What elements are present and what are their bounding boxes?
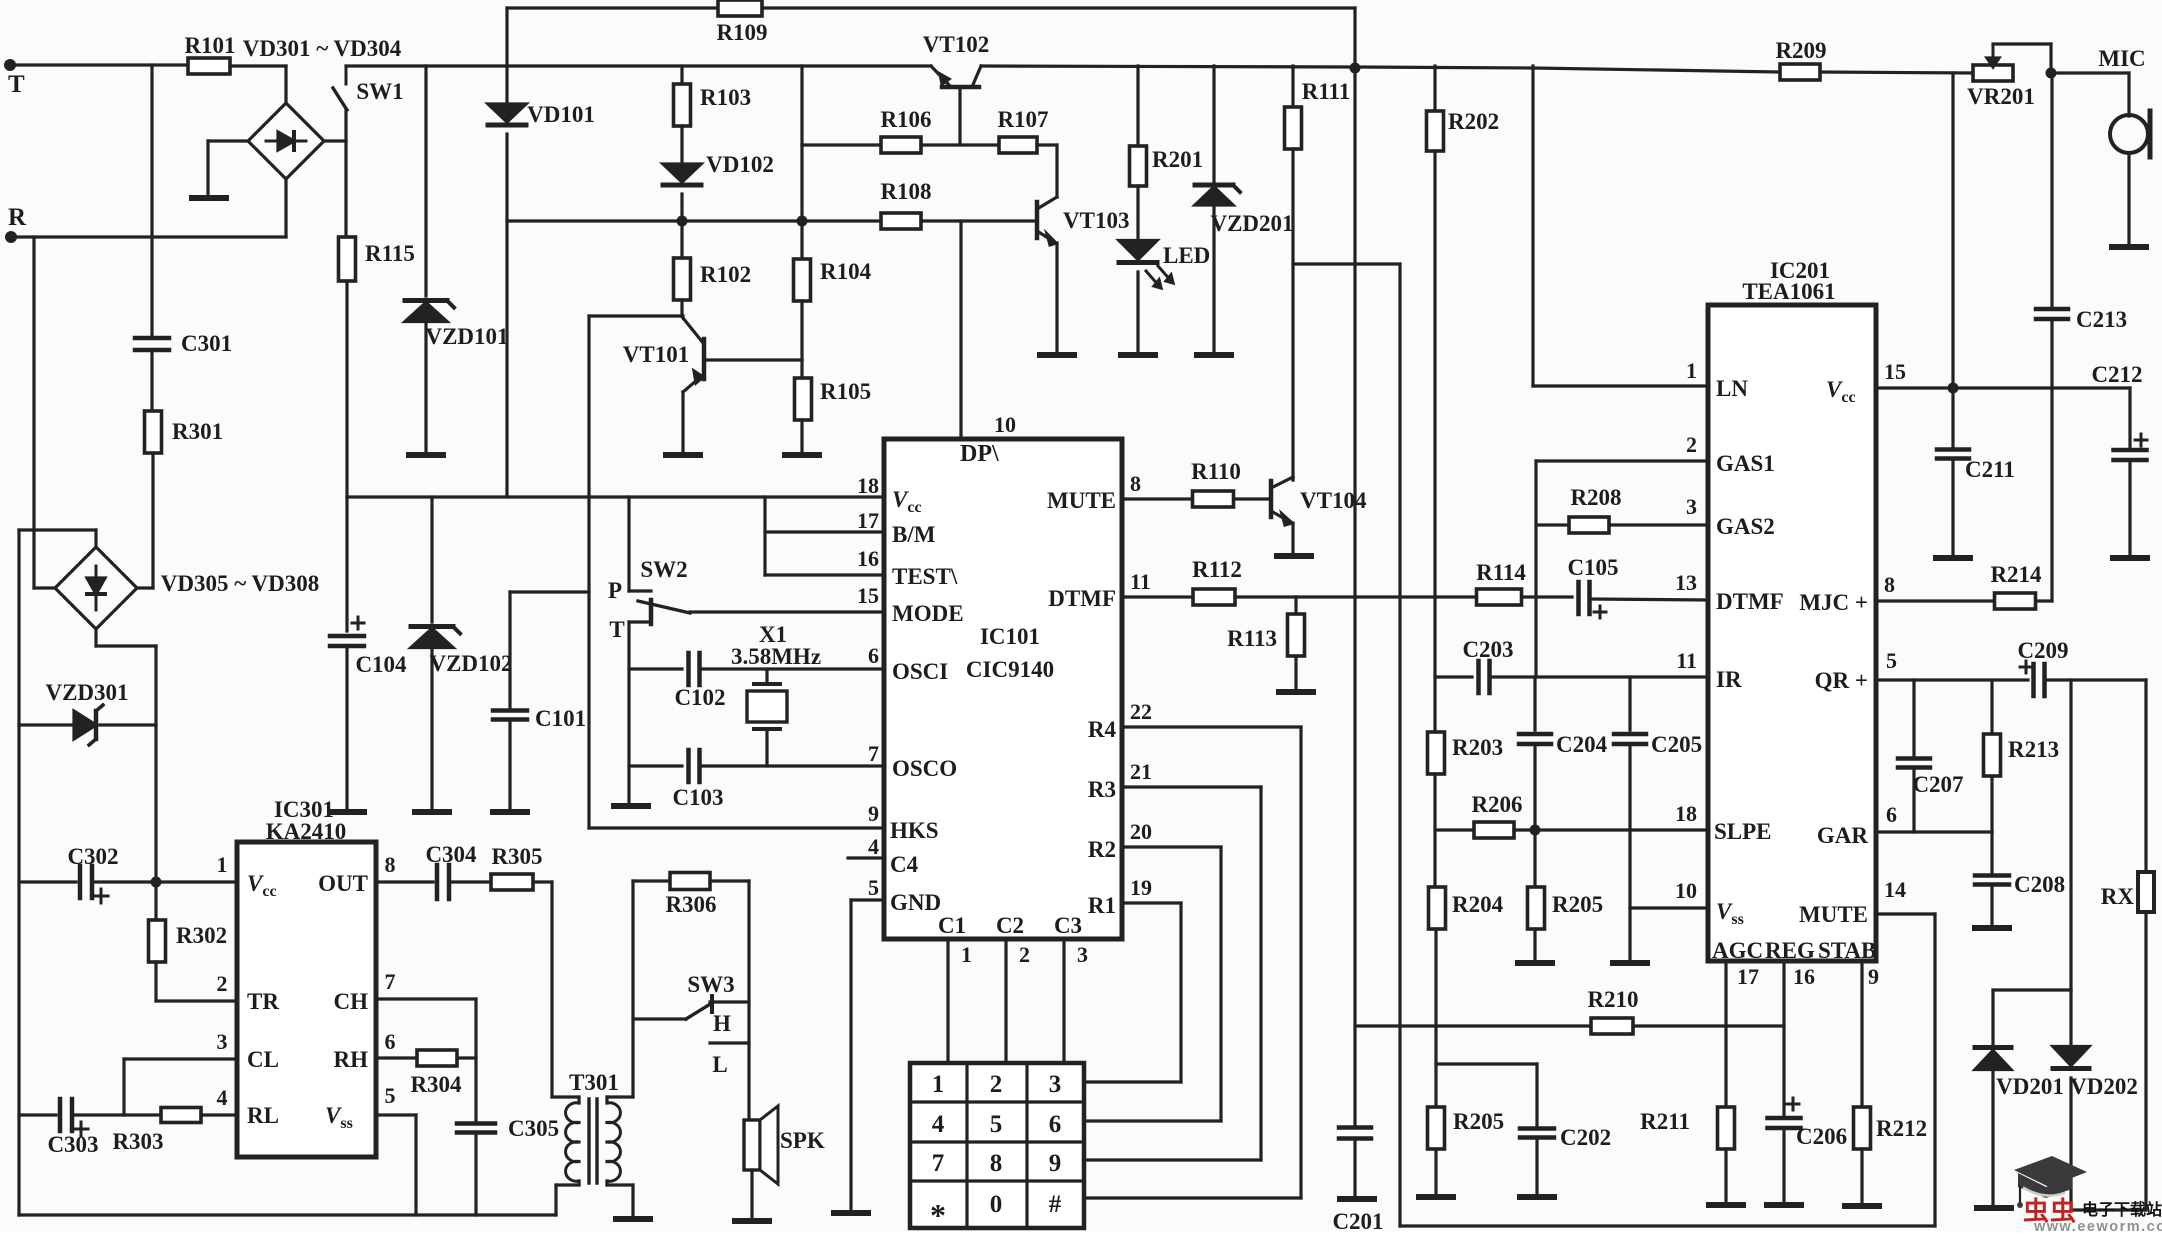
ground (R205 lower) — [1419, 1194, 1453, 1200]
svg-text:17: 17 — [1737, 964, 1759, 989]
capacitor C101 — [510, 590, 589, 593]
resistor R205 (lower) — [1434, 1064, 1437, 1107]
svg-text:MJC +: MJC + — [1799, 590, 1868, 615]
wire pin1 Vcc IC301 — [156, 880, 237, 883]
svg-text:R101: R101 — [184, 33, 235, 58]
svg-text:DTMF: DTMF — [1048, 586, 1116, 611]
resistor R108 — [881, 213, 921, 229]
svg-text:19: 19 — [1130, 875, 1152, 900]
svg-text:16: 16 — [857, 546, 879, 571]
svg-text:R302: R302 — [176, 923, 227, 948]
svg-text:6: 6 — [385, 1029, 396, 1054]
resistor R115 — [339, 237, 356, 281]
svg-text:C102: C102 — [674, 685, 725, 710]
capacitor C202 — [1436, 1062, 1537, 1065]
svg-text:R204: R204 — [1452, 892, 1504, 917]
wire C205 to ground — [1628, 908, 1631, 961]
ground (R212) — [1845, 1203, 1879, 1209]
watermark logo graduation cap — [2014, 1156, 2087, 1187]
svg-text:8: 8 — [385, 852, 396, 877]
node junction R102 — [677, 216, 688, 227]
svg-text:17: 17 — [857, 508, 879, 533]
wire B/M TEST tie to Vcc — [763, 497, 766, 575]
wire line sense vertical to C201 — [1353, 67, 1356, 1125]
wire x802 from rail — [800, 66, 803, 145]
svg-text:R111: R111 — [1302, 79, 1351, 104]
wire T to R101 — [10, 63, 189, 66]
svg-text:R214: R214 — [1990, 562, 2042, 587]
svg-text:C201: C201 — [1332, 1209, 1383, 1231]
svg-text:6: 6 — [868, 643, 879, 668]
svg-text:C213: C213 — [2076, 307, 2127, 332]
svg-text:TEST\: TEST\ — [892, 564, 958, 589]
svg-text:5: 5 — [990, 1111, 1003, 1138]
svg-text:C303: C303 — [47, 1132, 98, 1157]
svg-text:R102: R102 — [700, 262, 751, 287]
svg-text:R211: R211 — [1640, 1109, 1690, 1134]
ground (C212) — [2113, 555, 2147, 561]
wire GAS1 pin2 row — [1536, 459, 1708, 462]
node junction SLPE/C204 — [1530, 825, 1541, 836]
wire HKS sense line — [587, 316, 590, 828]
ground (C104) — [330, 809, 364, 815]
resistor R208 — [1536, 523, 1569, 526]
IC U301 KA2410 box — [237, 842, 376, 1157]
diode VD102 — [680, 126, 683, 163]
wire REG pin16 down — [1782, 961, 1785, 1115]
svg-text:DP\: DP\ — [960, 441, 999, 467]
svg-text:IR: IR — [1716, 667, 1742, 692]
svg-text:21: 21 — [1130, 759, 1152, 784]
wire bottom tie VD202-RX — [2071, 1208, 2146, 1211]
ground (VT101) — [666, 452, 700, 458]
resistor R210 — [1591, 1018, 1633, 1034]
svg-text:T: T — [8, 71, 25, 98]
svg-text:REG: REG — [1765, 938, 1815, 963]
capacitor C301 — [135, 336, 169, 341]
svg-text:R202: R202 — [1448, 109, 1499, 134]
svg-text:VD102: VD102 — [706, 152, 774, 177]
zener diode VZD301 — [74, 711, 96, 739]
wire Vcc pin15 row — [1876, 386, 2130, 389]
svg-text:VZD301: VZD301 — [45, 680, 128, 705]
svg-text:VD201: VD201 — [1996, 1074, 2064, 1099]
svg-text:VT103: VT103 — [1063, 208, 1129, 233]
resistor R109 — [507, 6, 718, 9]
svg-text:VT101: VT101 — [623, 342, 689, 367]
svg-text:5: 5 — [1886, 648, 1897, 673]
svg-text:R110: R110 — [1191, 459, 1241, 484]
svg-text:VD301 ~ VD304: VD301 ~ VD304 — [243, 36, 402, 61]
svg-text:C206: C206 — [1796, 1124, 1847, 1149]
wire R210 row — [1355, 1024, 1592, 1027]
capacitor C204 — [1533, 677, 1536, 730]
svg-text:TEA1061: TEA1061 — [1742, 279, 1835, 304]
svg-text:电子下载站: 电子下载站 — [2082, 1200, 2162, 1219]
capacitor C104 electrolytic — [345, 497, 348, 631]
svg-text:VD305 ~ VD308: VD305 ~ VD308 — [161, 571, 319, 596]
wire TR pin2 — [156, 999, 237, 1002]
svg-text:R104: R104 — [820, 259, 872, 284]
resistor R302 — [154, 882, 157, 920]
svg-text:C4: C4 — [890, 852, 919, 877]
wire column C1 — [946, 939, 949, 1063]
wire CL pin3 — [124, 1057, 237, 1060]
svg-text:C1: C1 — [938, 913, 966, 938]
svg-text:10: 10 — [994, 412, 1016, 437]
resistor R304 — [376, 1056, 417, 1059]
wire bottom rail (left) — [19, 1213, 556, 1216]
ground (VT104) — [1277, 553, 1311, 559]
wire row3 to pin21 R3 — [1122, 785, 1261, 788]
svg-text:1: 1 — [961, 942, 972, 967]
svg-text:2: 2 — [1019, 942, 1030, 967]
svg-text:C207: C207 — [1912, 772, 1963, 797]
wire Vcc net down — [1951, 73, 1954, 388]
svg-text:L: L — [712, 1052, 727, 1077]
svg-text:R3: R3 — [1088, 777, 1116, 802]
resistor R305 — [491, 874, 533, 890]
wire MJC pin8 row — [1876, 599, 1995, 602]
wire GND pin5 — [851, 898, 884, 901]
ground (SPK) — [735, 1218, 769, 1224]
svg-text:15: 15 — [857, 583, 879, 608]
svg-text:LN: LN — [1716, 376, 1748, 401]
svg-text:11: 11 — [1676, 648, 1697, 673]
resistor R204 — [1429, 887, 1446, 929]
ground (C205) — [1613, 960, 1647, 966]
svg-text:R213: R213 — [2008, 737, 2059, 762]
svg-text:8: 8 — [1884, 572, 1895, 597]
svg-text:3: 3 — [1049, 1071, 1062, 1098]
node junction top rail — [1350, 63, 1361, 74]
svg-text:VZD102: VZD102 — [429, 651, 512, 676]
LED arrows — [1146, 271, 1160, 287]
wire SW3 to R306 right / SPK — [747, 881, 750, 1120]
svg-text:11: 11 — [1130, 569, 1151, 594]
wire ring branch: bridge top jog to left rail — [94, 530, 97, 547]
wire diode clamp tie — [2069, 680, 2072, 990]
keypad matrix box — [910, 1063, 1084, 1228]
IC U201 TEA1061 box — [1708, 305, 1876, 961]
wire OUT pin8 to C304 — [376, 880, 433, 883]
wire QR pin5 row — [1876, 678, 2028, 681]
svg-text:T: T — [609, 617, 624, 642]
capacitor C305 — [474, 999, 477, 1120]
svg-text:VZD201: VZD201 — [1210, 211, 1293, 236]
ground (LED) — [1121, 352, 1155, 358]
capacitor C303 — [19, 1113, 56, 1116]
ground (C208) — [1975, 925, 2009, 931]
wire SW2 T leg down — [627, 622, 630, 804]
capacitor C102 — [629, 667, 682, 670]
svg-text:QR +: QR + — [1815, 668, 1868, 693]
svg-text:R209: R209 — [1775, 38, 1826, 63]
resistor R211 — [1718, 1107, 1735, 1149]
svg-text:R: R — [8, 204, 27, 231]
svg-text:1: 1 — [217, 852, 228, 877]
svg-text:4: 4 — [217, 1085, 228, 1110]
svg-text:C205: C205 — [1651, 732, 1702, 757]
svg-text:R103: R103 — [700, 85, 751, 110]
svg-text:IC101: IC101 — [980, 624, 1040, 649]
svg-text:R106: R106 — [880, 107, 931, 132]
svg-text:22: 22 — [1130, 699, 1152, 724]
wire GAR pin6 row — [1876, 830, 1992, 833]
svg-text:C103: C103 — [672, 785, 723, 810]
svg-text:CIC9140: CIC9140 — [966, 657, 1054, 682]
svg-text:0: 0 — [990, 1191, 1003, 1218]
wire SW1 to R115 — [344, 141, 347, 238]
svg-text:GAR: GAR — [1817, 823, 1869, 848]
capacitor C203 — [1476, 661, 1481, 693]
svg-text:R2: R2 — [1088, 837, 1116, 862]
svg-text:KA2410: KA2410 — [266, 819, 347, 844]
svg-text:R109: R109 — [716, 20, 767, 45]
wire bridge left to ground — [208, 139, 248, 142]
svg-text:C202: C202 — [1560, 1125, 1611, 1150]
svg-text:#: # — [1049, 1191, 1062, 1218]
svg-text:OSCO: OSCO — [892, 756, 957, 781]
svg-text:*: * — [930, 1197, 946, 1231]
ground (R205) — [1518, 960, 1552, 966]
ground (oscillator) — [614, 803, 648, 809]
wire VT101 collector node — [682, 316, 683, 318]
capacitor C205 — [1628, 677, 1631, 730]
wire R109 loop right — [762, 6, 1355, 9]
ground (R113) — [1279, 689, 1313, 695]
svg-text:R112: R112 — [1192, 557, 1242, 582]
ground (IC101 GND) — [834, 1210, 868, 1216]
svg-text:VD202: VD202 — [2070, 1074, 2138, 1099]
wire column C2 — [1004, 939, 1007, 1063]
svg-text:R212: R212 — [1876, 1116, 1927, 1141]
svg-text:C204: C204 — [1556, 732, 1608, 757]
svg-text:SPK: SPK — [780, 1128, 825, 1153]
wire MODE pin15 — [690, 610, 884, 613]
wire x802 bias chain — [800, 145, 803, 221]
svg-text:1: 1 — [932, 1071, 945, 1098]
svg-text:R205: R205 — [1453, 1109, 1504, 1134]
capacitor C201 — [1339, 1125, 1371, 1130]
resistor R102 — [680, 221, 683, 258]
svg-text:MODE: MODE — [892, 601, 964, 626]
svg-text:C305: C305 — [508, 1116, 559, 1141]
resistor R205 (upper) — [1533, 830, 1536, 887]
svg-text:STAB: STAB — [1818, 938, 1876, 963]
wire LN pin1 drop — [1531, 66, 1534, 386]
capacitor C213 — [2050, 73, 2053, 306]
resistor R206 — [1435, 828, 1474, 831]
wire AGC pin17 down — [1724, 961, 1727, 1107]
resistor R306 — [633, 879, 670, 882]
svg-text:3: 3 — [1686, 494, 1697, 519]
svg-text:9: 9 — [868, 801, 879, 826]
svg-text:RL: RL — [247, 1103, 279, 1128]
zener diode VZD101 — [424, 66, 427, 296]
ground (VD201) — [1977, 1205, 2011, 1211]
resistor R301 — [145, 411, 162, 453]
ground (VZD101) — [409, 452, 443, 458]
svg-text:6: 6 — [1049, 1111, 1062, 1138]
resistor R209 — [1780, 64, 1820, 80]
node junction C302/R302 — [151, 877, 162, 888]
rectifier bridge VD305~VD308 — [55, 547, 137, 629]
svg-text:6: 6 — [1886, 802, 1897, 827]
svg-text:GAS1: GAS1 — [1716, 451, 1775, 476]
wire VZD301 link — [19, 723, 74, 726]
receiver RX — [2138, 872, 2154, 912]
switch SW1 — [345, 66, 348, 84]
zener diode VZD201 — [1212, 66, 1215, 184]
svg-text:13: 13 — [1675, 570, 1697, 595]
svg-text:C301: C301 — [181, 331, 232, 356]
svg-text:9: 9 — [1868, 964, 1879, 989]
svg-text:T301: T301 — [569, 1070, 619, 1095]
svg-text:1: 1 — [1686, 358, 1697, 383]
ground (C202) — [1520, 1194, 1554, 1200]
node junction VR201/MIC — [2046, 68, 2057, 79]
wire top rail right segment — [981, 66, 1781, 72]
ground (bridge VD301) — [192, 195, 226, 201]
diode VD101 — [505, 66, 508, 103]
wire column C3 — [1062, 939, 1065, 1063]
svg-text:R105: R105 — [820, 379, 871, 404]
svg-text:3: 3 — [217, 1029, 228, 1054]
resistor R303 — [124, 1113, 161, 1116]
svg-text:CL: CL — [247, 1047, 279, 1072]
IC U101 CIC9140 box — [884, 439, 1122, 939]
wire to MIC — [2051, 71, 2129, 74]
svg-text:R210: R210 — [1587, 987, 1638, 1012]
svg-text:R301: R301 — [172, 419, 223, 444]
svg-text:10: 10 — [1675, 878, 1697, 903]
wire RX to bottom — [2144, 912, 2147, 1210]
wire mute control branch — [1293, 262, 1400, 265]
wire Vss pin5 to bottom rail — [376, 1113, 416, 1116]
svg-text:VZD101: VZD101 — [425, 324, 508, 349]
svg-text:VT104: VT104 — [1300, 488, 1367, 513]
wire R115 down to Vcc rail corner — [345, 281, 348, 497]
ground (VZD102) — [415, 809, 449, 815]
resistor R213 — [1990, 680, 1993, 734]
wire VT101 emitter to ground — [681, 392, 684, 453]
svg-text:VT102: VT102 — [923, 32, 989, 57]
wire Vcc rail (IC101 pin18) — [347, 495, 884, 498]
wire R branch down to lower bridge left corner — [32, 237, 35, 588]
capacitor C302 — [19, 880, 76, 883]
ground (T301 secondary) — [616, 1216, 650, 1222]
svg-text:AGC: AGC — [1712, 938, 1763, 963]
svg-text:VD101: VD101 — [527, 102, 595, 127]
resistor R201 — [1136, 66, 1139, 145]
wire bridge right to SW1 — [324, 139, 346, 142]
svg-text:8: 8 — [990, 1150, 1003, 1177]
wire R109 loop left — [505, 8, 508, 66]
resistor R113 — [1294, 597, 1297, 614]
resistor R101 — [188, 58, 230, 74]
capacitor C206 electrolytic — [1787, 1103, 1799, 1106]
potentiometer VR201 — [1973, 65, 2013, 81]
wire R305 to T301 primary — [550, 882, 553, 1097]
wire base bias row y221 — [507, 219, 881, 222]
wire R101 to bridge top — [230, 64, 286, 67]
svg-text:OSCI: OSCI — [892, 659, 948, 684]
wire R203 to R204 / SLPE — [1433, 774, 1436, 887]
svg-text:C212: C212 — [2091, 362, 2142, 387]
svg-text:4: 4 — [868, 834, 879, 859]
wire C301 to R301 — [150, 350, 153, 412]
ground (VT103) — [1040, 352, 1074, 358]
diode VD201 — [1991, 990, 1994, 1048]
svg-text:C211: C211 — [1965, 457, 2015, 482]
svg-text:R108: R108 — [880, 179, 931, 204]
wire bottom rail (right) — [1400, 1224, 1935, 1227]
ground (MIC) — [2112, 244, 2146, 250]
svg-text:TR: TR — [247, 989, 279, 1014]
speaker SPK — [744, 1120, 760, 1170]
wire C4 stub — [848, 856, 884, 859]
svg-text:C104: C104 — [355, 652, 407, 677]
svg-text:16: 16 — [1793, 964, 1815, 989]
wire IR row / C203 — [1435, 675, 1472, 678]
svg-text:RH: RH — [334, 1047, 369, 1072]
node R terminal — [5, 231, 17, 243]
wire R107 to VT103 collector — [1055, 145, 1058, 197]
ground (C201) — [1340, 1196, 1374, 1202]
svg-text:R201: R201 — [1152, 147, 1203, 172]
wire bridge bottom jog to VZD301 line — [94, 629, 97, 646]
svg-text:18: 18 — [857, 473, 879, 498]
svg-text:RX: RX — [2101, 884, 2135, 909]
svg-text:R303: R303 — [112, 1129, 163, 1154]
wire row2 to pin20 R2 — [1122, 845, 1221, 848]
svg-text:C3: C3 — [1054, 913, 1082, 938]
svg-text:R205: R205 — [1552, 892, 1603, 917]
svg-text:C209: C209 — [2017, 638, 2068, 663]
svg-text:7: 7 — [932, 1150, 945, 1177]
svg-text:R115: R115 — [365, 241, 415, 266]
svg-text:SLPE: SLPE — [1714, 819, 1772, 844]
svg-text:9: 9 — [1049, 1150, 1062, 1177]
svg-text:5: 5 — [868, 875, 879, 900]
svg-text:C2: C2 — [996, 913, 1024, 938]
svg-text:5: 5 — [385, 1083, 396, 1108]
svg-text:R1: R1 — [1088, 893, 1116, 918]
wire left rail down to C302/C303/bottom — [17, 725, 20, 1215]
svg-text:R304: R304 — [410, 1072, 462, 1097]
svg-text:B/M: B/M — [892, 522, 936, 547]
svg-text:2: 2 — [1686, 432, 1697, 457]
svg-text:SW2: SW2 — [640, 557, 687, 582]
svg-text:DTMF: DTMF — [1716, 589, 1784, 614]
resistor R112 — [1193, 589, 1235, 605]
wire T301 secondary top — [607, 1095, 633, 1098]
svg-text:7: 7 — [385, 969, 396, 994]
svg-text:SW3: SW3 — [687, 972, 734, 997]
wire SLPE row — [1514, 828, 1708, 831]
capacitor C209 electrolytic — [2020, 666, 2032, 669]
resistor R107 — [999, 137, 1037, 153]
capacitor C207 — [1912, 680, 1915, 755]
svg-text:18: 18 — [1675, 801, 1697, 826]
svg-text:GND: GND — [890, 890, 941, 915]
svg-text:7: 7 — [868, 741, 879, 766]
svg-text:H: H — [713, 1011, 731, 1036]
svg-text:VR201: VR201 — [1967, 84, 2035, 109]
svg-text:15: 15 — [1884, 359, 1906, 384]
wire row4 to pin22 R4 — [1122, 725, 1301, 728]
